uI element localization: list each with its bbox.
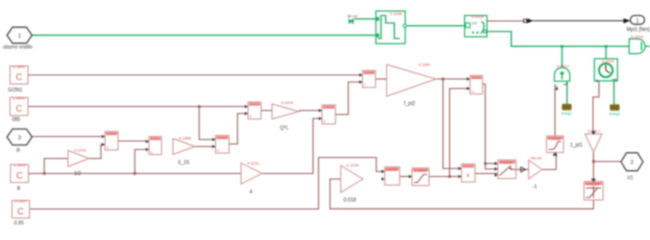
svg-text:Q*L: Q*L: [280, 126, 289, 132]
svg-text:C: C: [16, 72, 23, 82]
svg-text:0.018: 0.018: [344, 198, 357, 204]
svg-text:x: x: [107, 145, 109, 150]
svg-text:PA.05: PA.05: [531, 156, 542, 161]
svg-text:4.1021: 4.1021: [548, 136, 561, 141]
svg-text:ulazno vratilo: ulazno vratilo: [3, 45, 33, 51]
svg-text:C: C: [16, 171, 23, 181]
svg-text:omeg1: omeg1: [561, 112, 572, 116]
svg-text:-1: -1: [533, 184, 538, 190]
svg-text:1.1035: 1.1035: [587, 182, 600, 187]
svg-text:-1.1234: -1.1234: [345, 163, 359, 168]
svg-text:4: 4: [250, 190, 253, 196]
svg-text:0.1036: 0.1036: [390, 11, 403, 16]
svg-text:0_15: 0_15: [178, 160, 189, 166]
svg-text:omeg2: omeg2: [609, 112, 620, 116]
svg-text:0.95: 0.95: [14, 221, 24, 227]
svg-text:1: 1: [636, 19, 639, 25]
svg-text:f_pt2: f_pt2: [404, 101, 415, 107]
svg-text:0.155f: 0.155f: [418, 62, 430, 67]
svg-text:x: x: [217, 148, 219, 153]
svg-text:1.3941: 1.3941: [13, 96, 26, 101]
svg-text:3: 3: [18, 135, 21, 141]
svg-text:C: C: [16, 104, 23, 114]
svg-text:V1: V1: [627, 176, 633, 182]
svg-text:x: x: [467, 173, 470, 179]
svg-text:085: 085: [12, 117, 21, 123]
svg-text:1.1307: 1.1307: [14, 199, 27, 204]
svg-text:4.1211: 4.1211: [247, 161, 260, 166]
svg-text:1.1842: 1.1842: [13, 64, 26, 69]
svg-text:W: W: [348, 14, 352, 19]
svg-text:1/2: 1/2: [74, 171, 81, 177]
svg-text:1: 1: [18, 34, 21, 40]
svg-text:G/2N1: G/2N1: [8, 88, 23, 94]
svg-text:0.5004: 0.5004: [500, 160, 513, 165]
svg-text:0.1016: 0.1016: [631, 34, 644, 39]
svg-text:C: C: [17, 207, 24, 217]
svg-text:0.1016: 0.1016: [471, 14, 484, 19]
svg-text:Mpt1 [Nm]: Mpt1 [Nm]: [627, 27, 650, 33]
svg-text:2: 2: [630, 160, 633, 166]
svg-text:R: R: [17, 148, 21, 154]
svg-text:0.1016: 0.1016: [602, 58, 615, 63]
svg-text:1.1004: 1.1004: [414, 168, 427, 173]
svg-text:4.1366: 4.1366: [179, 136, 192, 141]
svg-text:x: x: [472, 89, 474, 94]
svg-text:4.1019: 4.1019: [281, 100, 294, 105]
svg-text:x: x: [151, 150, 153, 155]
svg-text:x: x: [250, 114, 252, 119]
svg-text:1.1003: 1.1003: [13, 163, 26, 168]
svg-text:x: x: [324, 119, 326, 124]
svg-text:1_pt1: 1_pt1: [570, 143, 583, 149]
svg-text:300: 300: [472, 22, 478, 26]
svg-text:4.1216: 4.1216: [74, 148, 87, 153]
svg-text:1.1009: 1.1009: [385, 167, 398, 172]
svg-text:0.1017: 0.1017: [557, 64, 570, 69]
